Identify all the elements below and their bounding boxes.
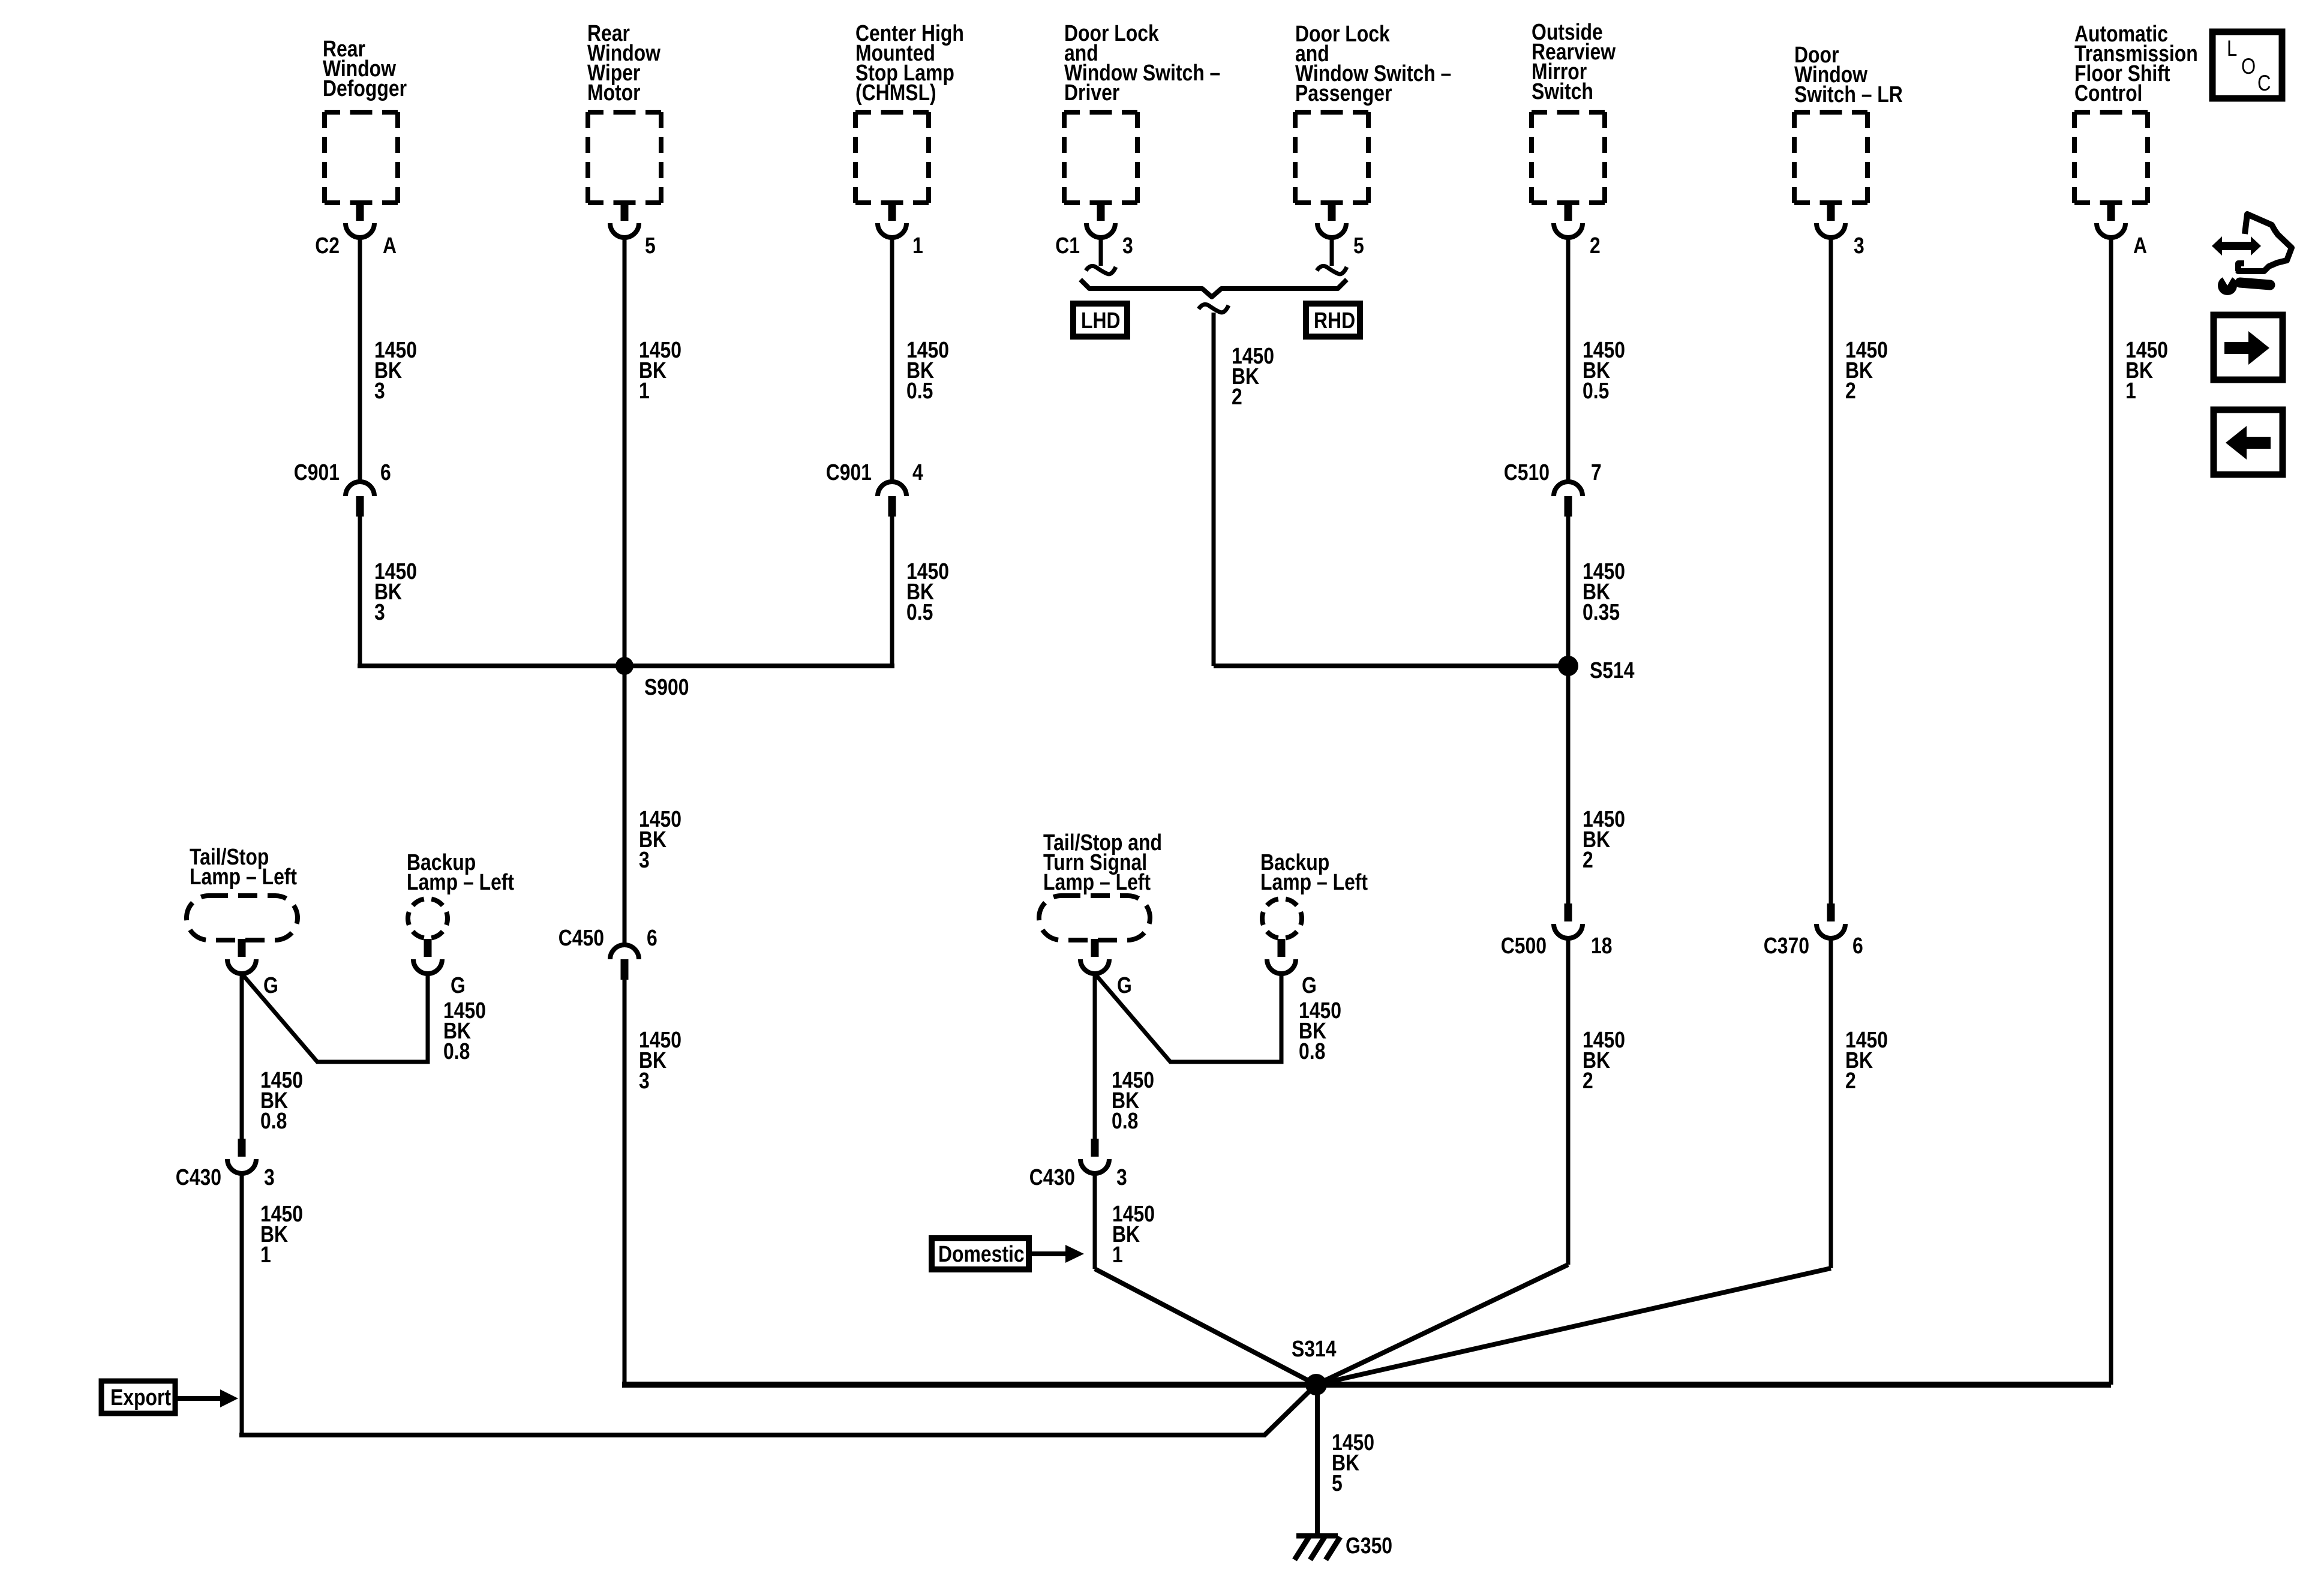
component Backup Lamp Left second — [1260, 849, 1368, 894]
component Door Lock and Window Switch Passenger — [1295, 21, 1451, 106]
connector pin 2 (mirror switch) — [1554, 203, 1583, 238]
connector C370 pin 6 — [1816, 903, 1845, 938]
svg-text:BackupLamp – Left: BackupLamp – Left — [1260, 849, 1368, 894]
svg-text:1450BK2: 1450BK2 — [1583, 1027, 1625, 1093]
svg-text:18: 18 — [1591, 933, 1613, 958]
splice S514 — [1558, 656, 1578, 676]
wire diagonal C500 line to S314 — [1316, 1265, 1568, 1385]
svg-text:3: 3 — [1854, 233, 1864, 258]
svg-text:C500: C500 — [1501, 933, 1547, 958]
svg-text:Center HighMountedStop Lamp(CH: Center HighMountedStop Lamp(CHMSL) — [855, 20, 964, 105]
wire 1450 BK 2 (LR switch to C370) — [1829, 236, 1833, 903]
ground bus wire to S314 and shift control — [622, 1382, 2111, 1388]
wire diagonal C370 line to S314 — [1316, 1268, 1831, 1385]
wire bus brace to S514 — [1214, 664, 1571, 668]
wire jumper turn signal lamp to backup lamp — [1095, 974, 1281, 1062]
connector C500 pin 18 — [1554, 903, 1583, 938]
wire 1450 BK 2 (C370 to S314) — [1829, 938, 1833, 1268]
svg-text:C450: C450 — [559, 925, 604, 950]
option box LHD — [1073, 304, 1127, 337]
harness end hook passenger — [1317, 266, 1347, 274]
wire 1450 BK 0.5 (C901 to S900 bus) — [890, 516, 894, 666]
wire 1450 BK 0.5 (mirror switch to C510) — [1566, 236, 1571, 484]
svg-text:C430: C430 — [176, 1164, 221, 1190]
svg-text:Domestic: Domestic — [938, 1241, 1025, 1266]
callout box Export — [101, 1381, 175, 1413]
svg-text:1450BK0.8: 1450BK0.8 — [1112, 1067, 1154, 1133]
svg-text:G: G — [1117, 972, 1132, 998]
legend box arrow right — [2214, 315, 2283, 380]
svg-text:A: A — [2133, 233, 2147, 258]
callout box Domestic — [932, 1238, 1029, 1269]
connector C1 pin 3 (driver switch) — [1086, 203, 1115, 238]
harness start hook below brace — [1199, 304, 1229, 312]
wire 1450 BK 1 (shift control to ground bus) — [2109, 236, 2113, 1385]
wire 1450 BK 1 (C430 to export bus) — [240, 1173, 244, 1435]
svg-text:A: A — [383, 233, 397, 258]
inline connector C510 pin 7 — [1554, 482, 1583, 517]
svg-text:6: 6 — [647, 925, 657, 950]
wire 1450 BK 2 (brace to S514 bus) — [1212, 313, 1216, 666]
wire 1450 BK 3 (C901 to S900 bus) — [358, 516, 362, 666]
svg-text:1450BK5: 1450BK5 — [1332, 1430, 1374, 1496]
svg-text:Export: Export — [110, 1385, 171, 1410]
legend box arrow left — [2214, 410, 2283, 475]
connector pin G (backup lamp second) — [1267, 939, 1296, 974]
arrow domestic to wire — [1032, 1251, 1065, 1256]
svg-text:1450BK1: 1450BK1 — [1112, 1201, 1155, 1267]
svg-text:Tail/Stop andTurn SignalLamp –: Tail/Stop andTurn SignalLamp – Left — [1043, 830, 1162, 894]
wire 1450 BK 2 (S514 to C500) — [1566, 666, 1571, 903]
svg-text:1450BK1: 1450BK1 — [639, 337, 681, 403]
svg-text:5: 5 — [645, 233, 656, 258]
harness end hook driver — [1086, 266, 1116, 274]
svg-text:1450BK3: 1450BK3 — [374, 337, 417, 403]
wire 1450 BK 0.35 (C510 to S514) — [1566, 516, 1571, 666]
svg-text:1450BK3: 1450BK3 — [639, 1027, 681, 1093]
svg-text:1450BK3: 1450BK3 — [639, 806, 681, 872]
connector pin G (tail stop lamp) — [227, 939, 256, 974]
svg-text:G: G — [1302, 972, 1317, 998]
wire 1450 BK 5 (S314 to ground G350) — [1315, 1385, 1320, 1535]
legend box LOC — [2212, 32, 2282, 98]
svg-text:6: 6 — [1852, 933, 1863, 958]
svg-text:Tail/StopLamp – Left: Tail/StopLamp – Left — [190, 844, 297, 889]
svg-text:5: 5 — [1353, 233, 1364, 258]
wire 1450 BK 1 (C430 to S314) — [1093, 1173, 1097, 1269]
wire driver switch to option brace — [1099, 236, 1103, 266]
svg-text:C2: C2 — [315, 233, 340, 258]
svg-text:6: 6 — [380, 460, 391, 485]
wire 1450 BK 0.8 (turn signal lamp to C430) — [1093, 974, 1097, 1139]
wire passenger switch to option brace — [1330, 236, 1334, 266]
svg-text:BackupLamp – Left: BackupLamp – Left — [407, 849, 514, 894]
svg-text:3: 3 — [1122, 233, 1133, 258]
svg-text:1450BK1: 1450BK1 — [2125, 337, 2168, 403]
svg-text:G350: G350 — [1346, 1533, 1392, 1558]
legend icon body repair (car outline with arrow and wrench) — [2212, 236, 2261, 256]
wire 1450 BK 0.8 (tail lamp to C430) — [240, 974, 244, 1139]
wire bus into splice S900 — [358, 664, 894, 668]
svg-text:4: 4 — [912, 460, 923, 485]
svg-text:1450BK2: 1450BK2 — [1583, 806, 1625, 872]
wire jumper tail lamp to backup lamp — [242, 974, 428, 1062]
svg-text:3: 3 — [1116, 1164, 1127, 1190]
svg-text:C: C — [2257, 71, 2271, 96]
ground G350 — [1295, 1536, 1340, 1560]
svg-text:G: G — [451, 972, 466, 998]
svg-text:RHD: RHD — [1314, 308, 1355, 333]
connector pin 5 (passenger switch) — [1317, 203, 1346, 238]
wire 1450 BK 3 (S900 to C450) — [623, 666, 627, 947]
svg-text:1450BK0.8: 1450BK0.8 — [260, 1067, 303, 1133]
connector pin A (floor shift control) — [2097, 203, 2125, 238]
svg-text:1450BK0.8: 1450BK0.8 — [443, 998, 486, 1064]
svg-text:1450BK2: 1450BK2 — [1845, 337, 1888, 403]
svg-text:RearWindowWiperMotor: RearWindowWiperMotor — [587, 20, 661, 105]
wire diagonal domestic line to S314 — [1095, 1269, 1316, 1385]
svg-text:C510: C510 — [1504, 460, 1550, 485]
connector pin 3 (door window switch LR) — [1816, 203, 1845, 238]
svg-text:C370: C370 — [1764, 933, 1809, 958]
wire 1450 BK 3 (C450 to ground bus) — [623, 979, 627, 1385]
connector C430 pin 3 (export) — [227, 1139, 256, 1173]
svg-text:Door LockandWindow Switch –Dri: Door LockandWindow Switch –Driver — [1064, 20, 1220, 105]
svg-text:G: G — [263, 972, 278, 998]
splice S900 — [615, 657, 633, 675]
connector C2 pin A — [346, 203, 374, 238]
inline connector C901 pin 6 — [346, 482, 374, 517]
component Automatic Transmission Floor Shift Control — [2074, 21, 2198, 106]
svg-text:C1: C1 — [1055, 233, 1080, 258]
svg-text:AutomaticTransmissionFloor Shi: AutomaticTransmissionFloor ShiftControl — [2074, 21, 2198, 106]
svg-text:1450BK0.35: 1450BK0.35 — [1583, 559, 1625, 625]
connector pin 5 (wiper motor) — [610, 203, 639, 238]
component Tail Stop Lamp Left — [190, 844, 297, 889]
svg-text:OutsideRearviewMirrorSwitch: OutsideRearviewMirrorSwitch — [1532, 19, 1616, 104]
svg-text:C430: C430 — [1029, 1164, 1075, 1190]
component Backup Lamp Left — [407, 849, 514, 894]
svg-text:1450BK0.5: 1450BK0.5 — [906, 559, 949, 625]
component Door Lock and Window Switch Driver — [1064, 20, 1220, 105]
connector C430 pin 3 (domestic) — [1080, 1139, 1109, 1173]
svg-text:1: 1 — [912, 233, 923, 258]
component Tail Stop and Turn Signal Lamp Left — [1043, 830, 1162, 894]
svg-text:1450BK0.8: 1450BK0.8 — [1299, 998, 1341, 1064]
svg-text:1450BK3: 1450BK3 — [374, 559, 417, 625]
option box RHD — [1306, 304, 1360, 337]
component Rear Window Defogger — [323, 36, 407, 101]
wire 1450 BK 1 (wiper motor to S900) — [623, 236, 627, 666]
svg-text:C901: C901 — [826, 460, 872, 485]
svg-text:1450BK0.5: 1450BK0.5 — [906, 337, 949, 403]
inline connector C450 pin 6 — [610, 945, 639, 980]
inline connector C901 pin 4 — [878, 482, 906, 517]
connector pin G (tail stop turn signal lamp) — [1080, 939, 1109, 974]
component Center High Mounted Stop Lamp CHMSL — [855, 20, 964, 105]
connector pin G (backup lamp) — [413, 939, 442, 974]
svg-text:3: 3 — [264, 1164, 275, 1190]
option brace LHD RHD — [1080, 280, 1347, 297]
wire 1450 BK 3 (defogger to C901) — [358, 236, 362, 484]
splice S314 — [1305, 1374, 1327, 1395]
svg-text:S514: S514 — [1590, 658, 1635, 683]
svg-text:C901: C901 — [294, 460, 340, 485]
svg-text:S314: S314 — [1292, 1336, 1337, 1361]
wire 1450 BK 0.5 (CHMSL to C901) — [890, 236, 894, 484]
component Door Window Switch LR — [1794, 42, 1903, 107]
svg-text:S900: S900 — [644, 674, 689, 700]
svg-text:RearWindowDefogger: RearWindowDefogger — [323, 36, 407, 101]
component Outside Rearview Mirror Switch — [1532, 19, 1616, 104]
wire export bus to S314 — [239, 1385, 1316, 1435]
svg-text:1450BK1: 1450BK1 — [260, 1201, 303, 1267]
svg-text:1450BK2: 1450BK2 — [1232, 343, 1274, 409]
svg-text:2: 2 — [1590, 233, 1601, 258]
svg-text:1450BK2: 1450BK2 — [1845, 1027, 1888, 1093]
svg-text:Door LockandWindow Switch –Pas: Door LockandWindow Switch –Passenger — [1295, 21, 1451, 106]
arrow export to wire — [178, 1396, 220, 1401]
svg-text:1450BK0.5: 1450BK0.5 — [1583, 337, 1625, 403]
svg-text:LHD: LHD — [1081, 308, 1121, 333]
component Rear Window Wiper Motor — [587, 20, 661, 105]
svg-text:7: 7 — [1591, 460, 1602, 485]
wire 1450 BK 2 (C500 to S314) — [1566, 938, 1571, 1265]
connector pin 1 (CHMSL) — [878, 203, 906, 238]
svg-text:DoorWindowSwitch – LR: DoorWindowSwitch – LR — [1794, 42, 1903, 107]
svg-text:O: O — [2241, 55, 2256, 79]
svg-text:L: L — [2227, 37, 2237, 61]
